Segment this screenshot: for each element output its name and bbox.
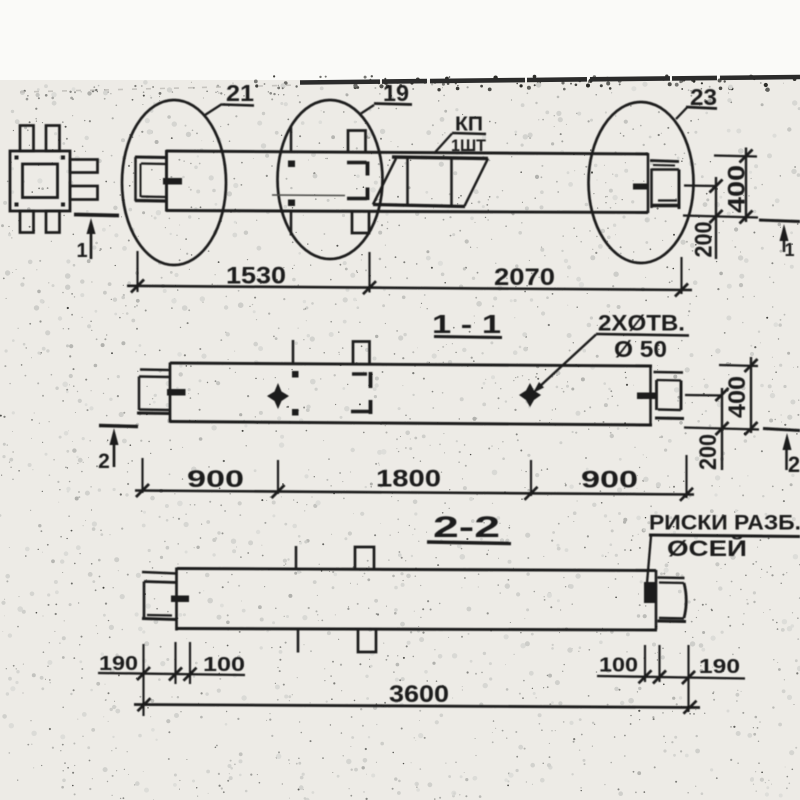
plan left embedded plate mark (163, 178, 182, 185)
2-2 axis dash above (295, 546, 297, 569)
ext hole1 (277, 460, 279, 494)
1-1 right tenon (654, 371, 684, 374)
plan anchor bracket (347, 161, 367, 164)
ext riska R (644, 645, 646, 682)
bottom rebar tabs (20, 211, 34, 233)
dim line 900/1800/900 (135, 491, 694, 495)
svg-text:2070: 2070 (494, 264, 555, 291)
kp plate thick line (392, 157, 488, 159)
2-2 right tenon (658, 576, 685, 579)
dim line 1530/2070 (127, 286, 692, 290)
1-1 bottom ext (684, 428, 759, 430)
right tabs (70, 160, 98, 173)
1-1 beam bottom (170, 422, 652, 426)
sheet border line faint left part (20, 85, 300, 92)
ticks (131, 280, 144, 293)
svg-text:190: 190 (699, 655, 740, 678)
plan hole axis dash bottom (290, 213, 292, 236)
1-1 top tab (353, 342, 370, 365)
shear key parallelogram (373, 159, 396, 205)
1-1 right embedded plate mark (637, 393, 656, 400)
svg-text:1ШТ: 1ШТ (451, 137, 486, 155)
1-1 400 top ext (719, 365, 758, 366)
plan beam left edge (165, 150, 168, 212)
2-2 bottom tab (358, 630, 376, 652)
1-1 dim 200 line (721, 388, 723, 470)
plan bottom tab (352, 213, 369, 234)
ext tenon tip R (687, 645, 689, 712)
ext line oval1 (136, 251, 138, 292)
svg-text:2: 2 (788, 452, 800, 477)
svg-text:200: 200 (695, 434, 722, 470)
2-2 left tenon (142, 572, 177, 574)
svg-text:1 - 1: 1 - 1 (432, 309, 501, 339)
oval callout 23 (589, 102, 694, 263)
2-2 top tab (355, 547, 374, 570)
1-1 axis dots (292, 371, 299, 378)
ext beam face L (174, 642, 176, 684)
dim line L (98, 673, 245, 675)
column end view outer square (10, 151, 70, 211)
section cut mark 2 (right) (763, 429, 800, 431)
oval callout 19 (278, 100, 383, 259)
svg-text:1800: 1800 (376, 466, 441, 493)
svg-text:РИСКИ РАЗБ.: РИСКИ РАЗБ. (649, 512, 800, 535)
leader 19 (361, 105, 374, 114)
ext tenon tip L (142, 644, 144, 716)
1-1 axis dash above (292, 340, 294, 363)
svg-text:200: 200 (691, 222, 718, 258)
plan right tenon (650, 161, 679, 162)
svg-text:100: 100 (599, 654, 638, 677)
svg-text:2-2: 2-2 (433, 511, 500, 544)
2-2 left embedded plate mark (171, 596, 189, 603)
2-2 beam left edge (175, 568, 178, 631)
dim line R (597, 676, 745, 679)
plan 400 top ext (714, 156, 757, 157)
2-2 beam top (177, 569, 656, 571)
svg-text:19: 19 (383, 80, 409, 106)
leader 23 (676, 108, 687, 120)
ext line oval2 (368, 252, 370, 293)
section cut mark 2 (left) (99, 426, 138, 427)
1-1 left embedded plate mark (167, 389, 186, 396)
plan right embedded plate mark (633, 184, 649, 190)
svg-text:ØСЕЙ: ØСЕЙ (667, 536, 747, 561)
dim line 3600 (134, 705, 700, 708)
1-1 beam left edge (169, 363, 172, 423)
plan beam right edge (647, 153, 649, 213)
column end view inner square (23, 164, 58, 198)
svg-text:900: 900 (581, 467, 638, 494)
plan dim 200 line (715, 177, 717, 259)
plan hole axis dots (288, 161, 295, 168)
ext hole2 (530, 460, 532, 496)
2-2 beam right edge (655, 570, 658, 630)
1-1 hole diamond 1 (267, 383, 289, 409)
svg-text:Ø 50: Ø 50 (614, 336, 667, 362)
svg-text:2: 2 (98, 450, 110, 473)
svg-text:1: 1 (76, 240, 87, 262)
svg-text:2ХØТВ.: 2ХØТВ. (598, 311, 685, 336)
plan beam bottom edge (166, 211, 648, 213)
plan 200 ext from tenon (684, 184, 716, 187)
1-1 200 ext (685, 394, 723, 397)
corner anchor dots (15, 156, 19, 160)
svg-text:400: 400 (724, 376, 751, 418)
1-1 anchor bracket (352, 372, 367, 375)
leader from OSEY label (647, 536, 651, 583)
svg-text:1: 1 (784, 240, 794, 260)
2-2 beam bottom (177, 629, 657, 631)
plan bottom ext (683, 216, 758, 218)
plan dim 400 line (745, 148, 747, 223)
1-1 left tenon (140, 368, 170, 371)
ext beam face R (658, 645, 660, 682)
ext beam left end (141, 458, 143, 493)
section cut mark 1 (right, plan) (759, 220, 800, 222)
section cut mark 1 (left, plan) (74, 215, 119, 216)
1-1 beam top (170, 363, 652, 366)
svg-text:900: 900 (187, 466, 244, 493)
top rebar tabs (20, 126, 34, 152)
riska mark (dark) at right (644, 582, 656, 603)
plan top tab (348, 131, 366, 153)
leader 2xOTV (538, 335, 596, 389)
leader 21 (205, 104, 222, 115)
svg-text:400: 400 (724, 165, 751, 213)
svg-text:3600: 3600 (389, 681, 449, 708)
clean strip above sheet border (0, 0, 800, 80)
plan hole axis dash top (290, 127, 292, 152)
ext riska L (189, 642, 191, 684)
1-1 dim 400 line (750, 357, 752, 433)
plan left tenon (135, 156, 166, 159)
svg-text:100: 100 (203, 653, 245, 676)
ext line oval3 (680, 257, 682, 294)
ext beam right end (685, 455, 687, 498)
2-2 axis dash below (297, 630, 299, 653)
oval callout 21 (122, 100, 226, 265)
svg-text:21: 21 (226, 80, 254, 106)
svg-text:1530: 1530 (226, 263, 286, 290)
svg-text:190: 190 (99, 652, 138, 675)
1-1 hole diamond 2 (519, 383, 541, 407)
sheet border line dark right part (300, 77, 800, 83)
1-1 beam right edge (649, 366, 651, 426)
plan beam top edge (166, 151, 648, 154)
